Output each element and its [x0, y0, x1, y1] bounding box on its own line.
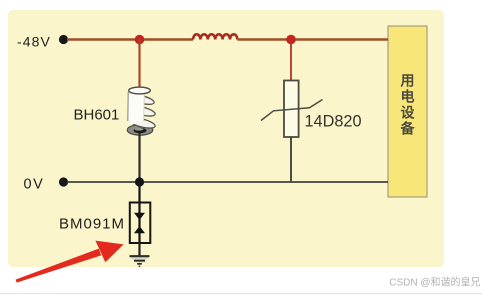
label BM091M — [59, 216, 125, 233]
svg-text:CSDN @和谐的皇兄: CSDN @和谐的皇兄 — [389, 276, 480, 289]
label 14D820 — [305, 113, 362, 131]
svg-text:-48V: -48V — [17, 34, 51, 50]
svg-text:BM091M: BM091M — [59, 216, 125, 233]
label 0V — [24, 177, 45, 193]
wire -48V rail right segment — [237, 38, 388, 40]
varistor 14D820 body — [261, 81, 323, 138]
junction node B (varistor branch) — [286, 35, 296, 45]
svg-text:14D820: 14D820 — [305, 113, 362, 131]
load box 用电设备 — [388, 26, 427, 197]
terminal dot 0V — [59, 177, 68, 186]
wire node B to varistor 14D820 — [290, 40, 292, 82]
schematic background panel — [8, 10, 444, 267]
terminal dot -48V — [59, 35, 68, 44]
wire -48V rail left segment — [67, 38, 193, 40]
svg-text:0V: 0V — [24, 177, 45, 193]
protector BM091M body — [130, 203, 151, 244]
wire node A to arrester BH601 — [138, 40, 140, 91]
watermark — [389, 276, 480, 289]
inductor L1 — [193, 34, 237, 39]
junction node C (protector branch on 0V) — [135, 177, 144, 186]
wire node C to protector BM091M — [138, 182, 140, 203]
annotation arrow pointing at BM091M — [16, 241, 124, 283]
wire arrester BH601 to 0V rail — [138, 133, 140, 182]
svg-text:备: 备 — [400, 121, 416, 137]
label BH601 — [74, 107, 120, 124]
svg-text:BH601: BH601 — [74, 107, 120, 124]
ground — [130, 256, 150, 267]
svg-text:用: 用 — [401, 73, 415, 89]
svg-text:设: 设 — [401, 105, 416, 121]
wire 0V rail — [67, 181, 388, 183]
svg-text:电: 电 — [401, 89, 415, 105]
wire protector BM091M to ground — [138, 243, 140, 256]
bottom hairline — [0, 293, 482, 295]
junction node A (arrester branch) — [135, 35, 145, 45]
label -48V — [17, 34, 51, 50]
arrester BH601 body — [127, 87, 156, 135]
wire varistor 14D820 to 0V rail — [290, 137, 292, 182]
